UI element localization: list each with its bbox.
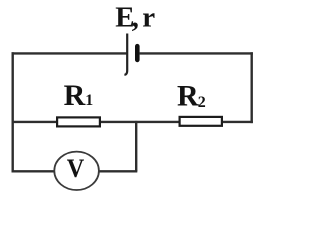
svg-text:2: 2 xyxy=(198,94,206,111)
svg-text:,: , xyxy=(132,1,139,33)
wire bottom right xyxy=(99,170,138,172)
wire top right xyxy=(140,52,253,54)
wire top left xyxy=(12,52,127,54)
resistor R2 box xyxy=(180,117,222,126)
battery E,r long plate xyxy=(124,34,127,75)
resistor R1 box xyxy=(57,117,100,126)
wire middle center xyxy=(101,121,180,123)
svg-text:R: R xyxy=(64,79,86,112)
wire middle right xyxy=(223,121,253,123)
battery E,r short thick plate xyxy=(135,46,140,60)
wire junction vertical xyxy=(135,121,137,171)
voltmeter V circle xyxy=(54,152,99,190)
wire middle left xyxy=(12,121,57,123)
svg-text:R: R xyxy=(177,79,199,112)
svg-text:V: V xyxy=(67,153,85,183)
wire left vertical xyxy=(11,52,13,172)
svg-text:r: r xyxy=(142,1,155,33)
wire bottom left xyxy=(12,170,55,172)
svg-text:1: 1 xyxy=(85,92,93,109)
wire right vertical xyxy=(250,52,252,123)
